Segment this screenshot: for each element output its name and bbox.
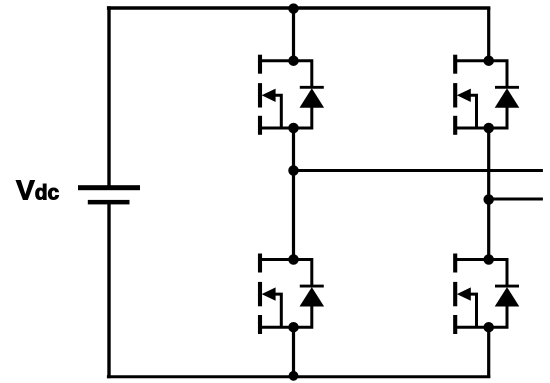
wire: left leg, Q1 source to Q2 drain bbox=[292, 128, 295, 260]
node: Q1 drain junction bbox=[288, 55, 299, 65]
Q1 source lead bbox=[260, 127, 294, 130]
transistor Q2 (MOSFET) bbox=[260, 254, 294, 335]
D2 cathode-side wire bbox=[294, 260, 312, 286]
node: Q3 source junction bbox=[483, 123, 494, 134]
Q2 source lead bbox=[260, 326, 294, 329]
Q4 body-to-source link wire bbox=[463, 294, 476, 327]
Q2 channel bar (body segment) bbox=[258, 282, 262, 306]
D3 cathode bar bbox=[495, 86, 519, 89]
wire: right leg, Q3 source to Q4 drain bbox=[487, 128, 490, 260]
Q1 channel bar (drain segment) bbox=[258, 55, 262, 74]
wire: output line A bbox=[294, 169, 543, 172]
node: top rail / left leg junction bbox=[288, 3, 299, 14]
Q4 source lead bbox=[455, 326, 489, 329]
Q2 body-to-source link wire bbox=[268, 294, 281, 327]
Q3 body arrow (points into channel) bbox=[457, 89, 471, 102]
D1 cathode bar bbox=[300, 86, 324, 89]
Q4 channel bar (body segment) bbox=[453, 282, 457, 306]
wire: right leg, top rail to Q3 drain bbox=[487, 8, 490, 61]
node: Q4 drain junction bbox=[483, 254, 494, 265]
node: bottom rail / left leg junction bbox=[289, 371, 299, 381]
Q3 channel bar (body segment) bbox=[453, 83, 457, 107]
Q4 body arrow (points into channel) bbox=[457, 287, 471, 300]
transistor Q4 (MOSFET) bbox=[455, 254, 489, 335]
Q2 channel bar (source segment) bbox=[258, 315, 262, 334]
wire: left leg, top rail to Q1 drain bbox=[292, 8, 295, 61]
node B: right output junction bbox=[483, 194, 494, 205]
Q1 drain lead bbox=[260, 59, 294, 62]
Q4 drain lead bbox=[455, 258, 489, 261]
battery Vdc: short negative plate bbox=[88, 200, 130, 205]
Q3 drain lead bbox=[455, 59, 489, 62]
D2 anode-side wire bbox=[294, 306, 312, 328]
wire: battery - to bottom rail bbox=[107, 204, 110, 379]
node: Q1 source junction bbox=[288, 123, 299, 134]
D4 cathode bar bbox=[495, 285, 519, 288]
Q2 channel bar (drain segment) bbox=[258, 254, 262, 273]
D3 triangle (anode, pointing up) bbox=[495, 88, 520, 107]
node: Q4 source junction bbox=[483, 322, 494, 333]
node A: left output junction bbox=[288, 165, 299, 176]
transistor Q1 (MOSFET) bbox=[260, 55, 294, 135]
D2 cathode bar bbox=[300, 285, 324, 288]
diode D1 (body diode of Q1) bbox=[294, 61, 325, 128]
Q2 body arrow (points into channel) bbox=[262, 287, 276, 300]
wire: top DC+ rail bbox=[107, 6, 491, 9]
Q4 channel bar (drain segment) bbox=[453, 254, 457, 273]
diode D3 (body diode of Q3) bbox=[489, 61, 520, 128]
Q1 channel bar (body segment) bbox=[258, 83, 262, 107]
Q1 body-to-source link wire bbox=[268, 95, 281, 128]
D1 triangle (anode, pointing up) bbox=[300, 88, 325, 107]
D3 anode-side wire bbox=[489, 107, 507, 128]
Q3 channel bar (source segment) bbox=[453, 116, 457, 135]
D4 triangle (anode, pointing up) bbox=[495, 287, 520, 306]
D4 cathode-side wire bbox=[489, 260, 507, 286]
diode D2 (body diode of Q2) bbox=[294, 260, 325, 328]
diode D4 (body diode of Q4) bbox=[489, 260, 520, 328]
Q3 channel bar (drain segment) bbox=[453, 55, 457, 74]
battery Vdc: long positive plate bbox=[78, 185, 140, 190]
D4 anode-side wire bbox=[489, 306, 507, 328]
D1 cathode-side wire bbox=[294, 61, 312, 87]
node: Q2 source junction bbox=[288, 322, 299, 333]
Q4 channel bar (source segment) bbox=[453, 315, 457, 334]
Q1 body arrow (points into channel) bbox=[262, 89, 276, 102]
wire: right leg, Q4 source to bottom rail bbox=[487, 327, 490, 377]
wire: output line B bbox=[489, 198, 543, 201]
D3 cathode-side wire bbox=[489, 61, 507, 87]
D2 triangle (anode, pointing up) bbox=[300, 287, 325, 306]
wire: left leg, Q2 source to bottom rail bbox=[292, 327, 295, 377]
Q1 channel bar (source segment) bbox=[258, 116, 262, 135]
Q3 source lead bbox=[455, 127, 489, 130]
Q3 body-to-source link wire bbox=[463, 95, 476, 128]
transistor Q3 (MOSFET) bbox=[455, 55, 489, 135]
Q2 drain lead bbox=[260, 258, 294, 261]
node: Q3 drain junction bbox=[483, 55, 494, 65]
wire: left supply drop (battery + to top rail) bbox=[107, 6, 110, 186]
D1 anode-side wire bbox=[294, 107, 312, 128]
wire: bottom DC- rail bbox=[107, 375, 491, 378]
svg-text:Vdc: Vdc bbox=[16, 175, 60, 206]
node: Q2 drain junction bbox=[288, 254, 299, 265]
